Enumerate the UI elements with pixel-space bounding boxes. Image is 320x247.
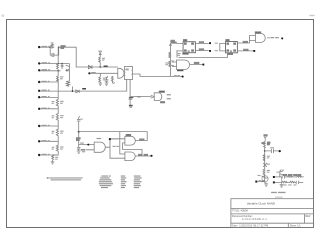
node junction J13 (99, 66, 101, 68)
labels at J7 (112, 138, 119, 147)
transistor Q1 (66, 64, 70, 74)
wire vcc drop (169, 44, 171, 76)
svg-text:Date: 11/05/2013 08:17:32 PM: Date: 11/05/2013 08:17:32 PM (232, 225, 268, 228)
labels chain2 below (283, 184, 296, 185)
wire U1B in2 (220, 50, 226, 52)
dark inline label L1 (104, 66, 108, 67)
caption line 2 faint (275, 197, 283, 198)
ground GND4 (280, 185, 283, 187)
label U3 bottom (161, 102, 165, 103)
diode D2 inline (76, 90, 79, 93)
node junction J11 (78, 131, 80, 133)
capacitor C9 stack (77, 118, 80, 132)
ground GND5 (265, 183, 268, 187)
node CN1 pin9 (38, 140, 40, 142)
label U1A below (182, 53, 188, 54)
node flag N5 (253, 50, 255, 52)
wire N9 stub (257, 181, 261, 183)
capacitor C5 (271, 149, 273, 153)
node CN1 pin8 (38, 125, 40, 127)
wire pin1 to R1 (40, 46, 50, 48)
node flag N8 (279, 150, 281, 152)
resistor R8 (56, 145, 58, 151)
and gate U3 (154, 93, 162, 101)
ground label dark (129, 105, 133, 107)
ic X1 pin ticks (124, 69, 132, 75)
wire Q3 top (280, 170, 281, 171)
resistor R4 (57, 76, 59, 81)
wire U1B out1 (237, 40, 249, 43)
label U4 out net (194, 62, 199, 63)
wire U1B in1 (220, 42, 226, 44)
wire bus A mid (57, 80, 59, 99)
label U1B out1 (243, 41, 248, 42)
label U3 top (159, 91, 164, 92)
label U6 nets (76, 138, 80, 141)
resistor R6 (56, 114, 58, 121)
label U1A (183, 40, 186, 41)
wire pin2 (40, 63, 69, 65)
node CN2 flag (88, 72, 90, 74)
svg-text:Variable Clock NAND: Variable Clock NAND (247, 201, 276, 205)
parts list column 1 (99, 176, 113, 189)
node CN1 pin4 (38, 81, 40, 83)
resistor R20 (287, 176, 292, 178)
vcc tick V5 (79, 116, 80, 117)
wire chain2 (275, 181, 303, 183)
label U1A out2 (199, 49, 204, 50)
wire U1B in tie (219, 43, 221, 51)
wire pin10 (40, 154, 57, 156)
node junction J8 (264, 150, 266, 152)
capacitor C6 (263, 163, 267, 166)
wire branch cap (265, 150, 279, 152)
wire R10 to wire1 (99, 62, 101, 67)
flip-flop U1B (226, 42, 238, 53)
svg-text:A-CLK-NAND-2-1: A-CLK-NAND-2-1 (242, 218, 267, 221)
label U5 out (271, 37, 279, 38)
label R17 (262, 135, 270, 145)
note paragraph (47, 177, 83, 180)
wire net W2 (91, 72, 118, 74)
svg-text:REV: REV (306, 215, 311, 218)
pin labels U1A (184, 43, 193, 52)
dark inline label L2 (82, 88, 86, 90)
and gate U5 (255, 34, 265, 43)
node junction J7 (109, 138, 111, 140)
capacitor C1 (52, 53, 54, 56)
wire net W1 (76, 66, 117, 68)
resistor R23 (290, 181, 294, 183)
arrow A1 (151, 95, 154, 98)
capacitor C8 (296, 181, 301, 184)
node flag N9 (255, 181, 257, 183)
transistor Q2 (262, 175, 269, 182)
pin labels U1B (227, 43, 236, 52)
page corner smudge (310, 15, 315, 16)
nand gate U7B (125, 152, 135, 161)
node flag N6 (281, 37, 283, 39)
wire branch to U4 (172, 62, 176, 67)
connector pin labels (42, 46, 96, 155)
label U4 below (177, 70, 183, 71)
parts list column 2 (121, 176, 127, 189)
resistor R12 (112, 76, 115, 83)
wire U5 in (249, 36, 255, 41)
wire pin6 (40, 96, 58, 98)
vcc tick V2 (106, 76, 108, 78)
capacitor C10 (77, 148, 80, 151)
node junction J1 (49, 46, 51, 48)
label Q3 (276, 172, 279, 173)
resistor R22 (282, 181, 287, 183)
scan noise top-left (2, 15, 4, 17)
vcc net V4 (171, 40, 176, 43)
wire Q1 emitter (68, 74, 70, 81)
label U1B below (227, 53, 233, 54)
label net dark (129, 97, 133, 98)
label U4 in1 (170, 60, 174, 61)
wire pin3 (40, 70, 60, 72)
wire U1A clk drop (176, 51, 178, 58)
labels chain1 (283, 174, 300, 175)
wire U4 out (190, 64, 202, 66)
label U6 top (97, 138, 102, 139)
node junction J2 (58, 46, 60, 48)
wire U1A in2 (177, 50, 184, 52)
node flag N2 (202, 64, 204, 66)
wire U6 in2 (86, 149, 94, 151)
wire pin-b tail (129, 97, 131, 105)
label R1 top (51, 42, 54, 43)
resistor R9 (52, 155, 54, 161)
node junction J9 (273, 176, 275, 178)
wire bus A upper (57, 47, 59, 76)
wire bus seg4 (53, 151, 59, 155)
label U7B out (139, 154, 148, 155)
wire U1B out2 (237, 50, 253, 52)
wire pin7 (40, 108, 58, 110)
resistor R14 (169, 52, 171, 58)
resistor R7 (56, 129, 58, 136)
label U7A (126, 134, 131, 135)
capacitor C7 (282, 176, 284, 179)
node CN1 pin1 (38, 46, 40, 48)
nand gate U4 (177, 60, 190, 70)
component value labels (52, 51, 274, 176)
wire bus seg2 (57, 120, 59, 129)
wire RC loop (50, 47, 59, 55)
vcc arrow V4a (169, 44, 171, 46)
wire feedback F1 (79, 132, 148, 154)
node CN1 pin6 (38, 96, 40, 98)
wire bus seg3 (57, 136, 59, 145)
parts list column 3 (134, 176, 142, 189)
vcc arrow V1 (99, 53, 101, 57)
label N9 (259, 180, 262, 181)
resistor R1 (51, 44, 53, 48)
wire U7A out (135, 140, 147, 142)
wire feedback F2 (123, 143, 142, 156)
wire pin4 (40, 81, 58, 83)
wire U1B bottom pin (179, 53, 228, 58)
wire gnd drop (281, 177, 283, 185)
capacitor C2 (61, 64, 63, 69)
label U6 in2 dark (81, 149, 85, 150)
wire pin5 (40, 90, 126, 92)
wire U6 in1 (79, 144, 95, 146)
resistor R18 (263, 155, 265, 161)
node junction J3 (57, 63, 59, 65)
node flag N7 (150, 155, 152, 157)
buffer gate U2 (118, 68, 124, 78)
node junction J6 (72, 90, 74, 92)
wire chain1 (275, 176, 304, 178)
and gate U6 (94, 142, 105, 152)
wire U1A in1 (177, 42, 184, 44)
labels before N1 (174, 75, 180, 76)
pin stubs U3 out (167, 95, 171, 99)
vcc arrow cluster (264, 136, 266, 141)
node CN1 pin3 (38, 69, 40, 71)
wire U7B out (135, 155, 150, 157)
title block (231, 199, 314, 228)
rail W3 (130, 96, 151, 98)
caption above title block (271, 192, 285, 193)
label U1A out1 (199, 42, 204, 43)
resistor R19 (263, 169, 265, 175)
label U5 (255, 32, 261, 33)
labels U1B left faint (215, 43, 218, 52)
flip-flop U1A (183, 42, 195, 53)
svg-text:Sheet: 1/1: Sheet: 1/1 (290, 225, 302, 228)
node flag N1 (182, 76, 184, 78)
label C9 (80, 119, 83, 120)
label U1B (226, 40, 229, 41)
nand gate U7A (125, 136, 135, 145)
node flag N4 (209, 50, 211, 52)
ground GND1 (51, 161, 54, 164)
node CN1 pin5 (38, 90, 40, 92)
wire bus seg (57, 106, 59, 114)
wire U5 out (267, 37, 270, 39)
wire net S vertical (78, 132, 80, 148)
node junction J4 (61, 63, 63, 65)
node junction J5 (57, 70, 59, 72)
wire to Q2 (264, 175, 266, 178)
wire U6 out fork (105, 139, 125, 158)
node flag N3 (209, 42, 211, 44)
ground GND2 (105, 83, 108, 85)
resistor R11 (99, 73, 101, 83)
wire pin9 (40, 140, 58, 142)
node CN1 pin7 (38, 108, 40, 110)
node CN1 pin10 (38, 154, 40, 156)
label U7A out (140, 139, 144, 140)
wire pin8 (40, 125, 58, 127)
ground GND6 (99, 83, 102, 85)
label U1B out2 (244, 49, 249, 50)
wire osc bus (264, 147, 266, 169)
ground GND7 (77, 151, 80, 153)
pin X1-a (126, 80, 128, 92)
ic X1 (124, 67, 132, 80)
transistor Q3 (280, 171, 283, 177)
resistor R10 (99, 57, 101, 62)
wire R3 to rail (72, 87, 74, 91)
oscillator branch: resistor R17 (264, 141, 266, 147)
transistor Q2 body circle (262, 176, 268, 182)
pin X1-b (129, 80, 131, 97)
label X1 inner (126, 69, 129, 71)
wire U1A out1 (195, 42, 208, 44)
node junction J10 (273, 181, 275, 183)
resistor R3 diagonal (66, 81, 70, 86)
resistor R15 (169, 61, 171, 67)
resistor R21 (297, 176, 301, 178)
label U4 in2 (170, 65, 174, 66)
label U6 in1 (80, 143, 84, 144)
resistor R5 (56, 99, 58, 106)
svg-text:TITLE: 4060A: TITLE: 4060A (232, 208, 248, 212)
capacitor C3 (105, 78, 108, 83)
wire X1 out (133, 74, 182, 76)
node CN1 pin2 (38, 62, 40, 64)
resistor R2 (57, 64, 59, 70)
label RC1 (61, 46, 65, 49)
node junction J12 (87, 144, 89, 146)
wire J2 to corner (59, 47, 76, 67)
wire U1A out2 (195, 50, 208, 52)
diode D1 (88, 65, 92, 68)
